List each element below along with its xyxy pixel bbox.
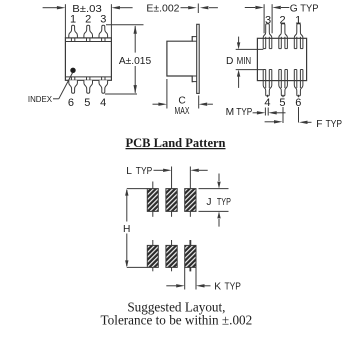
land pattern: dimension K TYP (pad width) — [166, 267, 241, 292]
left view: bottom pins — [69, 80, 108, 93]
svg-text:G: G — [290, 3, 298, 14]
svg-text:4: 4 — [100, 97, 106, 109]
svg-text:E±.002: E±.002 — [146, 3, 179, 14]
svg-text:MIN: MIN — [237, 56, 252, 67]
left view: pin numbers 6 5 4 — [68, 97, 106, 109]
land pattern: dimension H (overall height) — [123, 189, 147, 268]
right view: package body — [257, 38, 306, 80]
right view: dimension F TYP (lead pitch) — [265, 119, 343, 130]
side view: dimension C MAX (body+lead depth) — [153, 79, 213, 117]
land pattern: top row pads (hatched) — [147, 189, 196, 212]
left view: package body — [65, 38, 111, 80]
left view: dimension A±.015 (overall height) — [105, 25, 151, 94]
svg-text:5: 5 — [279, 97, 285, 109]
right view: pin 6 centerline — [298, 95, 300, 123]
land pattern: bottom row pads (hatched) — [147, 245, 196, 267]
svg-text:Tolerance to be within ±.002: Tolerance to be within ±.002 — [101, 313, 253, 328]
svg-text:F: F — [316, 119, 322, 130]
svg-text:INDEX: INDEX — [28, 95, 53, 104]
svg-text:1: 1 — [70, 13, 76, 25]
svg-text:TYP: TYP — [225, 281, 242, 292]
side view: dimension E±.002 (lead thickness) — [146, 3, 218, 14]
svg-text:L: L — [126, 166, 132, 177]
right view: dimension G TYP (shoulder width) — [245, 3, 319, 33]
left view: dimension B±.03 (body width) — [43, 4, 133, 38]
svg-text:TYP: TYP — [217, 197, 231, 208]
svg-text:4: 4 — [264, 97, 270, 109]
right view: pin 5 centerline — [282, 95, 284, 123]
svg-text:TYP: TYP — [300, 3, 318, 14]
svg-text:K: K — [214, 281, 221, 292]
right view: pin numbers 3 2 1 — [265, 14, 301, 26]
right view: bottom row leads — [263, 70, 303, 96]
left view: top pins — [69, 25, 108, 38]
side view: lead plate — [197, 24, 200, 93]
svg-text:PCB Land Pattern: PCB Land Pattern — [126, 136, 226, 150]
svg-text:J: J — [206, 197, 211, 208]
left view: index dot — [70, 68, 75, 73]
svg-text:D: D — [226, 56, 233, 67]
svg-text:5: 5 — [84, 97, 90, 109]
right view: dimension D MIN (gap between shoulders) — [226, 37, 263, 88]
svg-text:H: H — [123, 224, 130, 235]
right view: top row leads — [263, 24, 303, 49]
land pattern: pad centerlines — [153, 167, 191, 272]
svg-text:M: M — [226, 107, 235, 118]
side view: package body — [167, 37, 197, 82]
right view: dimension M TYP (lead width) — [226, 107, 286, 118]
svg-text:6: 6 — [68, 97, 74, 109]
svg-text:MAX: MAX — [175, 106, 190, 117]
svg-text:A±.015: A±.015 — [119, 56, 152, 67]
svg-text:TYP: TYP — [236, 107, 252, 118]
svg-text:3: 3 — [100, 13, 106, 25]
left view: index leader line — [53, 73, 73, 99]
svg-text:TYP: TYP — [326, 119, 343, 130]
right view: pin numbers 4 5 6 — [264, 97, 301, 109]
svg-text:TYP: TYP — [136, 166, 153, 177]
land pattern: dimension J TYP (pad height) — [199, 174, 232, 227]
svg-text:C: C — [178, 95, 185, 106]
svg-text:2: 2 — [85, 13, 91, 25]
land pattern: dimension L TYP (pad pitch) — [126, 166, 208, 177]
left view: pin numbers 1 2 3 — [70, 13, 106, 25]
right view: pin 4 centerline segment — [267, 95, 269, 97]
